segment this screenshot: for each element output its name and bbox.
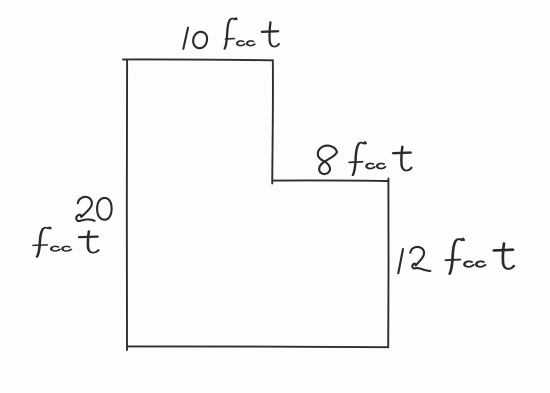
L-shaped room outline	[123, 59, 389, 350]
wire bottom edge	[127, 345, 388, 348]
wire right edge of upper section	[271, 60, 274, 183]
label feet (middle)	[349, 142, 411, 175]
label feet (top)	[225, 18, 279, 49]
wire top edge	[123, 58, 273, 61]
label feet (right)	[446, 239, 514, 274]
label 12	[398, 247, 430, 273]
wire left edge	[126, 61, 128, 351]
label 10	[183, 28, 207, 49]
label 20	[76, 197, 111, 221]
label feet (left)	[33, 227, 98, 257]
wire right edge of lower section	[387, 179, 389, 348]
wire middle step edge	[272, 179, 388, 182]
label 8	[318, 146, 337, 174]
